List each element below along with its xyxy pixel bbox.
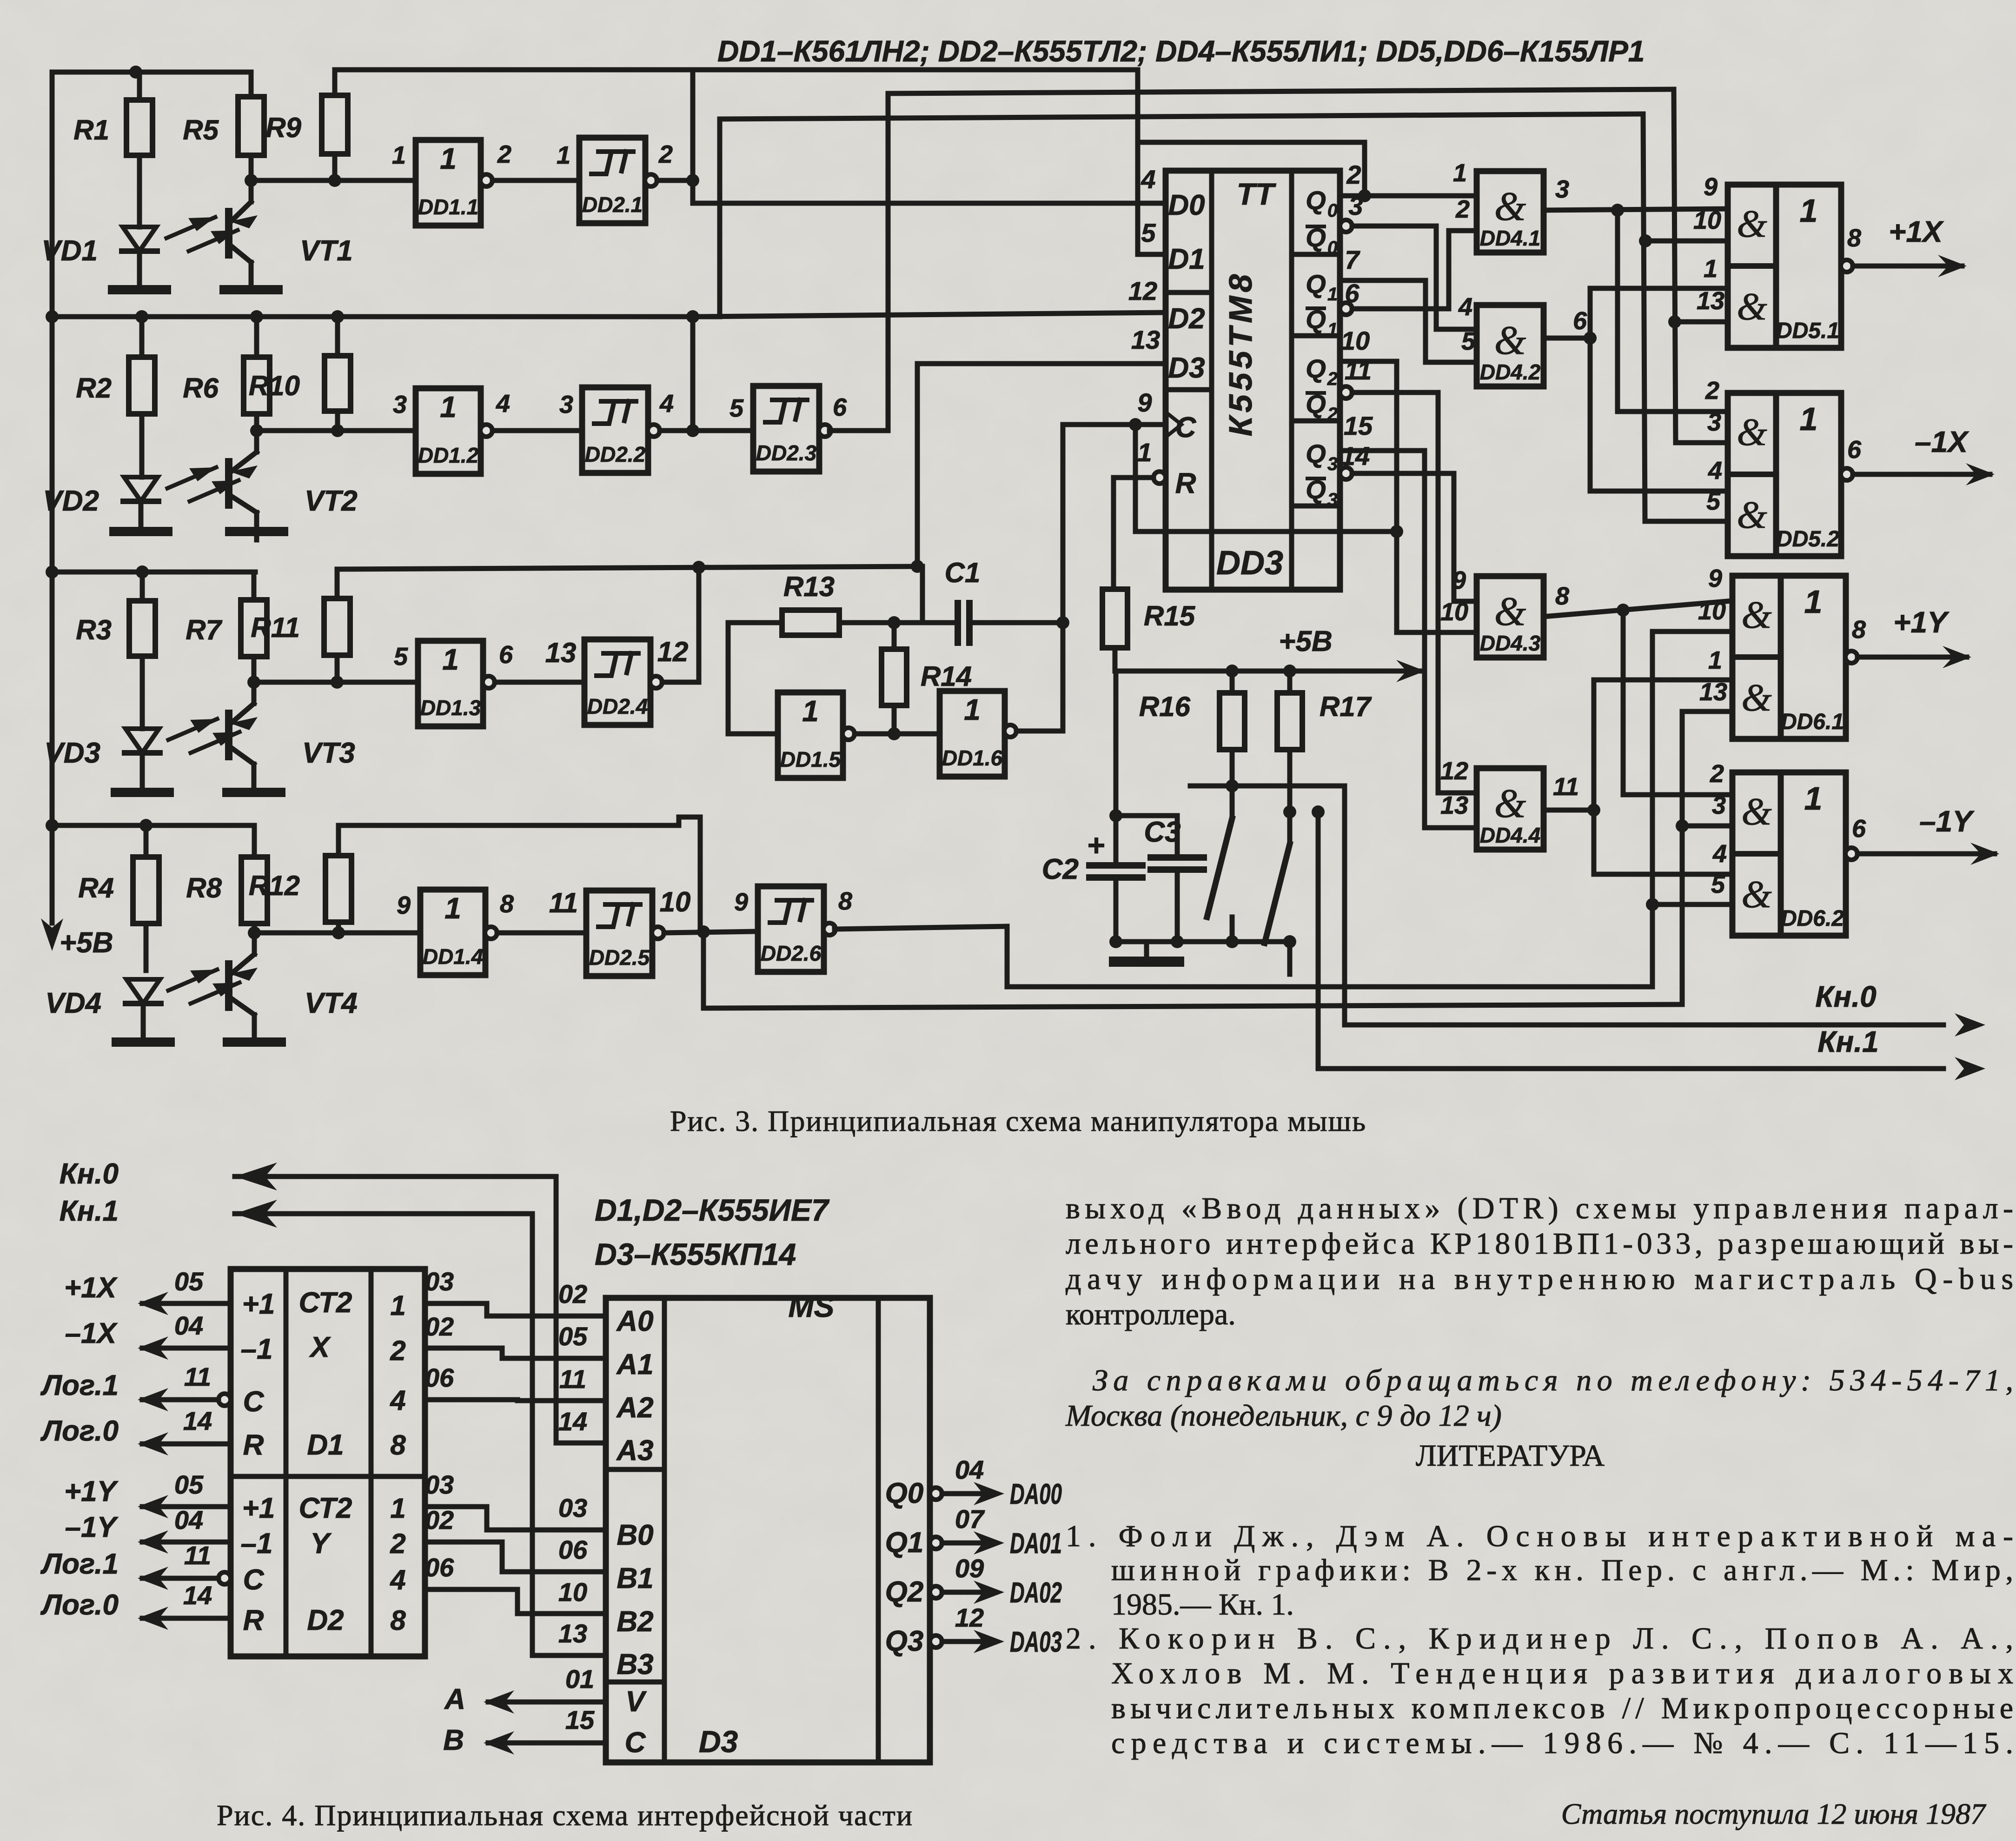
- svg-text:9: 9: [734, 888, 748, 916]
- svg-text:R5: R5: [183, 114, 219, 146]
- svg-text:02: 02: [425, 1312, 454, 1341]
- svg-text:Москва (понедельник, с 9 до 12: Москва (понедельник, с 9 до 12 ч): [1065, 1399, 1502, 1433]
- wire D2 line: [693, 312, 1166, 317]
- svg-text:11: 11: [549, 887, 578, 918]
- svg-text:Рис. 3. Принципиальная схема м: Рис. 3. Принципиальная схема манипулятор…: [670, 1104, 1366, 1137]
- svg-text:R4: R4: [78, 872, 114, 904]
- svg-text:DD6.2: DD6.2: [1781, 906, 1844, 931]
- wire cap-switch common: [1116, 935, 1296, 948]
- wire net D to DD5 pins 13 3: [1668, 89, 1728, 443]
- wire rail row4b: [338, 817, 700, 932]
- svg-text:DA01: DA01: [1010, 1528, 1062, 1560]
- svg-text:R: R: [243, 1429, 264, 1461]
- svg-text:V: V: [625, 1686, 647, 1718]
- svg-text:09: 09: [955, 1554, 984, 1583]
- wire D1 out to A2: [425, 1363, 606, 1401]
- wire Q1 to DD4.2 pin5: [1340, 280, 1477, 362]
- svg-text:R12: R12: [249, 870, 300, 901]
- wire C input B: [443, 1705, 606, 1756]
- svg-text:2: 2: [390, 1528, 405, 1559]
- svg-text:9: 9: [1137, 388, 1152, 417]
- text reference 2: [1066, 1622, 2013, 1760]
- wire DD2.1 out to node: [657, 174, 699, 187]
- svg-text:DD2.2: DD2.2: [585, 442, 646, 466]
- svg-text:&: &: [1741, 873, 1772, 916]
- svg-text:DD2.6: DD2.6: [761, 941, 822, 965]
- svg-text:6: 6: [499, 641, 513, 669]
- svg-text:дачу информации на внутреннюю: дачу информации на внутреннюю магистраль…: [1066, 1262, 2013, 1296]
- wire output Q2 DA02: [885, 1554, 1062, 1609]
- svg-text:Q: Q: [1306, 269, 1326, 299]
- svg-text:D1,D2–К555ИЕ7: D1,D2–К555ИЕ7: [595, 1193, 830, 1227]
- AND-OR gate DD5.1: [1693, 173, 1861, 348]
- svg-text:5: 5: [729, 394, 744, 422]
- inverter DD1.1: [392, 140, 511, 226]
- svg-text:2: 2: [658, 140, 673, 168]
- svg-text:B0: B0: [617, 1519, 653, 1551]
- svg-text:К555ТМ8: К555ТМ8: [1222, 271, 1259, 437]
- label parts list fig4: [595, 1193, 830, 1271]
- svg-text:&: &: [1494, 589, 1526, 634]
- opto arrows VD4-VT4: [168, 970, 239, 1004]
- svg-text:–1: –1: [241, 1333, 273, 1365]
- inverter DD1.3: [394, 641, 513, 726]
- svg-text:4: 4: [390, 1564, 405, 1595]
- LED VD1: [41, 227, 157, 290]
- svg-text:10: 10: [660, 886, 691, 917]
- svg-text:1: 1: [964, 693, 981, 726]
- LED VD2: [43, 477, 159, 532]
- wire C net to DD4 gates: [1135, 425, 1403, 538]
- counter D1 D2 box: [231, 1269, 425, 1656]
- svg-text:&: &: [1494, 184, 1526, 229]
- svg-text:4: 4: [390, 1385, 405, 1416]
- svg-text:A: A: [444, 1683, 465, 1715]
- svg-text:C: C: [243, 1386, 265, 1418]
- svg-text:DA02: DA02: [1010, 1577, 1062, 1609]
- svg-text:15: 15: [565, 1705, 595, 1735]
- wire DD2.5 out net: [703, 711, 1732, 1008]
- text article date: [1561, 1797, 1987, 1830]
- svg-text:C1: C1: [945, 557, 981, 588]
- svg-text:2: 2: [1346, 160, 1361, 189]
- svg-text:DD1.1: DD1.1: [418, 195, 478, 219]
- ground VT1: [224, 285, 278, 294]
- label +5V arrow: [1279, 625, 1425, 682]
- wire Q3bar to DD4.3 pin9: [1340, 467, 1477, 601]
- text reference 1: [1066, 1519, 2013, 1622]
- svg-text:СТ2: СТ2: [299, 1287, 352, 1319]
- svg-text:C2: C2: [1042, 853, 1079, 885]
- svg-text:DD4.3: DD4.3: [1480, 631, 1541, 655]
- ground VD4: [116, 1037, 170, 1047]
- svg-text:VT4: VT4: [305, 987, 358, 1019]
- svg-text:A3: A3: [616, 1435, 653, 1467]
- svg-text:11: 11: [559, 1364, 586, 1394]
- svg-text:лельного интерфейса КР1801ВП1-: лельного интерфейса КР1801ВП1-033, разре…: [1066, 1227, 2013, 1261]
- svg-text:6: 6: [1847, 436, 1862, 464]
- wire D1 out to A0: [425, 1267, 606, 1316]
- wire DD1.1 to DD2.1: [492, 178, 579, 183]
- svg-text:ЛИТЕРАТУРА: ЛИТЕРАТУРА: [1416, 1439, 1605, 1473]
- svg-text:12: 12: [955, 1603, 984, 1632]
- svg-text:1: 1: [1137, 438, 1152, 467]
- wire rail row1b feedback: [335, 67, 1138, 73]
- svg-text:06: 06: [425, 1363, 454, 1392]
- svg-text:&: &: [1737, 493, 1767, 537]
- wire rail row3: [46, 565, 255, 578]
- svg-text:B2: B2: [617, 1606, 653, 1638]
- svg-text:1: 1: [557, 141, 570, 169]
- wire +5V left bus: [41, 72, 113, 959]
- ground VD2: [114, 527, 168, 536]
- svg-text:VD4: VD4: [45, 987, 101, 1019]
- svg-text:+1Y: +1Y: [1893, 605, 1950, 639]
- svg-text:1. Фоли Дж., Дэм А. Основы и: 1. Фоли Дж., Дэм А. Основы интерактивной…: [1066, 1519, 2013, 1553]
- node row1: [245, 174, 416, 187]
- svg-text:1: 1: [1704, 255, 1718, 283]
- wire DD1.4 to DD2.5: [497, 930, 586, 936]
- opto arrows VD2-VT2: [167, 467, 239, 501]
- wire riser rail2 to DD2.2out: [686, 310, 699, 431]
- AND gate DD4.2: [1458, 293, 1587, 386]
- svg-text:3: 3: [393, 391, 407, 419]
- wire Q0bar to DD4.2 pin4: [1340, 220, 1477, 329]
- wire -1X out: [1853, 425, 1995, 485]
- svg-text:8: 8: [1852, 616, 1866, 644]
- svg-text:12: 12: [1440, 757, 1468, 785]
- svg-text:DD1.3: DD1.3: [420, 696, 481, 720]
- svg-text:12: 12: [657, 636, 689, 667]
- svg-text:R6: R6: [183, 372, 219, 404]
- wire +1X out: [1853, 215, 1967, 277]
- svg-text:VT2: VT2: [305, 485, 358, 517]
- svg-text:Y: Y: [310, 1528, 332, 1560]
- resistor R7: [186, 572, 267, 682]
- svg-text:11: 11: [184, 1541, 211, 1570]
- AND-OR gate DD6.2: [1710, 760, 1866, 936]
- svg-text:03: 03: [425, 1267, 454, 1296]
- svg-text:–1Y: –1Y: [1919, 804, 1975, 838]
- dynamic C input mark: [1166, 412, 1181, 437]
- svg-text:D2: D2: [1168, 303, 1205, 335]
- svg-text:2: 2: [1327, 369, 1338, 389]
- wire rail row4: [46, 819, 254, 832]
- caption fig3: [670, 1104, 1366, 1137]
- svg-text:Лог.1: Лог.1: [40, 1369, 119, 1402]
- svg-text:3: 3: [1327, 490, 1338, 510]
- LED VD3: [44, 729, 160, 792]
- ground VT4: [227, 1037, 281, 1047]
- svg-text:03: 03: [425, 1470, 454, 1499]
- text literatura heading: [1416, 1439, 1605, 1473]
- svg-text:За справками обращаться по тел: За справками обращаться по телефону: 534…: [1093, 1363, 2013, 1397]
- svg-text:4: 4: [496, 390, 510, 418]
- svg-text:DD2.3: DD2.3: [756, 441, 817, 465]
- wire DD1.6 out riser to C pin: [1016, 418, 1166, 731]
- svg-text:D1: D1: [1168, 243, 1205, 275]
- wire rail row3b: [337, 561, 922, 623]
- svg-text:2: 2: [497, 140, 511, 168]
- svg-text:03: 03: [558, 1493, 587, 1522]
- svg-text:Q: Q: [1306, 439, 1326, 468]
- wire Log1 D2 input: [40, 1541, 231, 1590]
- wire rail row2: [46, 310, 693, 323]
- resistor R1: [73, 72, 153, 227]
- AND gate DD4.1: [1453, 159, 1569, 253]
- phototransistor VT4: [229, 933, 358, 1042]
- wire DD4.3 out net: [1544, 601, 1732, 795]
- wire +1X input: [64, 1267, 231, 1315]
- svg-text:DD4.4: DD4.4: [1480, 823, 1540, 847]
- svg-text:1985.— Кн. 1.: 1985.— Кн. 1.: [1111, 1588, 1294, 1622]
- wire -1Y input: [65, 1505, 231, 1554]
- LED VD4: [45, 979, 161, 1042]
- wire Q2 to DD4.3 pin10: [1340, 361, 1477, 632]
- svg-text:Кн.0: Кн.0: [60, 1158, 119, 1190]
- wire Kn1 to B3: [60, 1195, 606, 1655]
- svg-text:B1: B1: [617, 1562, 653, 1595]
- inverter DD1.2: [393, 388, 510, 474]
- resistor R11: [251, 569, 350, 682]
- svg-text:4: 4: [1708, 457, 1722, 485]
- ground VD1: [113, 285, 166, 294]
- counter D1 cells: [241, 1287, 406, 1461]
- svg-text:05: 05: [174, 1267, 204, 1296]
- inverter DD1.5: [778, 692, 855, 778]
- svg-text:R10: R10: [249, 370, 300, 401]
- wire Q1bar to DD4.1 pin2: [1340, 231, 1477, 315]
- svg-text:4: 4: [1458, 293, 1472, 321]
- schmitt DD2.5: [549, 886, 691, 976]
- wire rail row1: [52, 66, 249, 79]
- svg-text:Кн.0: Кн.0: [1815, 980, 1876, 1013]
- svg-text:+1X: +1X: [1889, 215, 1944, 248]
- svg-text:3: 3: [559, 391, 573, 419]
- svg-text:R7: R7: [186, 614, 222, 645]
- svg-text:R1: R1: [73, 114, 109, 146]
- ground VT2: [230, 527, 284, 536]
- svg-text:R17: R17: [1320, 691, 1372, 722]
- wire DD2.2 out to DD2.3: [660, 424, 753, 437]
- svg-text:04: 04: [955, 1455, 984, 1484]
- svg-text:5: 5: [1461, 327, 1476, 355]
- svg-text:C: C: [243, 1564, 265, 1596]
- svg-text:DD1.5: DD1.5: [780, 747, 842, 771]
- wire Log1 D1 input: [40, 1362, 231, 1411]
- caption fig4: [217, 1799, 913, 1832]
- svg-text:&: &: [1741, 593, 1772, 637]
- AND gate DD4.4: [1440, 757, 1579, 850]
- svg-text:10: 10: [558, 1577, 587, 1607]
- svg-text:2: 2: [1455, 195, 1470, 223]
- wire D2 out to B1: [425, 1505, 606, 1572]
- svg-text:R: R: [1175, 467, 1196, 499]
- svg-text:0: 0: [1327, 200, 1338, 221]
- svg-text:DD2.4: DD2.4: [587, 694, 648, 718]
- svg-text:C: C: [625, 1727, 646, 1759]
- wire output Q3 DA03: [885, 1603, 1062, 1658]
- svg-text:2: 2: [1710, 760, 1724, 788]
- svg-text:A0: A0: [616, 1305, 653, 1337]
- svg-text:13: 13: [1440, 791, 1468, 819]
- svg-text:Q1: Q1: [885, 1527, 924, 1559]
- svg-text:DD1.6: DD1.6: [942, 746, 1003, 770]
- svg-text:1: 1: [802, 694, 819, 728]
- svg-text:9: 9: [397, 891, 411, 919]
- svg-text:01: 01: [565, 1664, 594, 1694]
- wire Q0 to DD4.1 pin1: [1365, 193, 1477, 199]
- svg-text:Q: Q: [1306, 354, 1326, 383]
- svg-text:3: 3: [1327, 454, 1338, 474]
- wire D3 line: [911, 364, 1166, 573]
- svg-text:Лог.0: Лог.0: [40, 1589, 119, 1621]
- wire -1Y out: [1857, 804, 1999, 865]
- svg-text:&: &: [1494, 781, 1526, 826]
- wire Q3 to DD4.4 pin13: [1340, 451, 1477, 828]
- svg-text:DD5.2: DD5.2: [1776, 527, 1839, 552]
- svg-text:1: 1: [1800, 193, 1818, 229]
- wire +5V line: [1115, 665, 1344, 678]
- svg-text:4: 4: [1712, 840, 1727, 868]
- svg-text:1: 1: [1708, 646, 1722, 674]
- inverter DD1.6: [940, 691, 1016, 777]
- svg-text:6: 6: [833, 393, 847, 421]
- svg-text:VD3: VD3: [44, 737, 100, 769]
- svg-text:контроллера.: контроллера.: [1066, 1297, 1236, 1331]
- wire DD4.2 out net: [1544, 288, 1728, 491]
- wire R13 right: [839, 566, 958, 629]
- wire V input A: [444, 1664, 606, 1715]
- svg-text:+1X: +1X: [64, 1272, 118, 1304]
- svg-text:A2: A2: [616, 1392, 653, 1424]
- svg-text:14: 14: [183, 1581, 212, 1610]
- svg-text:13: 13: [1697, 287, 1724, 315]
- svg-text:Лог.1: Лог.1: [40, 1548, 119, 1580]
- schmitt DD2.1: [557, 138, 673, 223]
- svg-text:&: &: [1741, 790, 1772, 833]
- svg-text:14: 14: [558, 1407, 587, 1436]
- wire DD4.4 out net: [1544, 680, 1732, 874]
- resistor R6: [183, 317, 270, 431]
- svg-text:СТ2: СТ2: [299, 1492, 352, 1524]
- resistor R16: [1139, 671, 1245, 786]
- svg-text:шинной графики: В 2-х кн. Пер.: шинной графики: В 2-х кн. Пер. с англ.— …: [1111, 1553, 2013, 1587]
- svg-text:13: 13: [545, 637, 577, 668]
- svg-text:15: 15: [1344, 411, 1373, 440]
- resistor R17: [1277, 671, 1372, 812]
- svg-text:04: 04: [174, 1505, 203, 1535]
- svg-text:1: 1: [1327, 319, 1338, 340]
- AND gate DD4.3: [1440, 566, 1569, 658]
- svg-text:B: B: [443, 1724, 464, 1756]
- svg-text:Q: Q: [1306, 186, 1326, 215]
- svg-text:Q0: Q0: [885, 1477, 924, 1509]
- wire DD4.1 out net: [1544, 204, 1728, 412]
- ground symbol: [1114, 942, 1179, 962]
- svg-text:Рис. 4. Принципиальная схема и: Рис. 4. Принципиальная схема интерфейсно…: [217, 1799, 913, 1832]
- svg-text:DD5.1: DD5.1: [1776, 319, 1839, 343]
- svg-text:D0: D0: [1168, 189, 1205, 221]
- svg-text:R11: R11: [251, 612, 300, 643]
- wire DD1.5 out: [855, 727, 940, 740]
- svg-text:&: &: [1737, 285, 1767, 328]
- svg-text:5: 5: [1141, 218, 1156, 247]
- svg-text:11: 11: [184, 1362, 211, 1391]
- svg-text:DA00: DA00: [1010, 1478, 1062, 1510]
- svg-text:9: 9: [1708, 565, 1722, 592]
- opto arrows VD1-VT1: [166, 217, 238, 251]
- svg-text:&: &: [1737, 411, 1767, 454]
- resistor R8: [186, 825, 267, 933]
- svg-text:8: 8: [1847, 224, 1861, 252]
- svg-text:9: 9: [1704, 173, 1718, 201]
- svg-text:+5В: +5В: [1279, 625, 1332, 658]
- capacitor C2: [1042, 671, 1142, 948]
- wire -1X input: [65, 1311, 231, 1360]
- svg-text:VD1: VD1: [41, 235, 98, 267]
- svg-text:вычислительных комплексо: вычислительных комплексов // Микропроцес…: [1111, 1691, 2013, 1725]
- wire DD2.6 out net: [835, 631, 1732, 987]
- svg-text:X: X: [309, 1331, 331, 1363]
- svg-text:VD2: VD2: [43, 485, 99, 517]
- svg-text:D3–К555КП14: D3–К555КП14: [595, 1237, 796, 1271]
- AND-OR gate DD6.1: [1698, 565, 1866, 739]
- schmitt DD2.3: [729, 386, 847, 472]
- svg-text:1: 1: [442, 643, 459, 676]
- svg-text:D3: D3: [1168, 352, 1205, 384]
- node row4: [248, 926, 420, 939]
- svg-text:04: 04: [174, 1311, 203, 1340]
- svg-text:+1: +1: [242, 1288, 275, 1320]
- wire +1Y out: [1857, 605, 1971, 668]
- svg-text:–1: –1: [241, 1528, 273, 1560]
- svg-text:1: 1: [1804, 584, 1823, 620]
- wire D2 out to B0: [425, 1470, 606, 1530]
- svg-text:Кн.1: Кн.1: [60, 1195, 119, 1227]
- svg-text:2: 2: [1705, 377, 1719, 405]
- svg-text:DD2.1: DD2.1: [582, 193, 643, 217]
- svg-text:2: 2: [390, 1335, 405, 1366]
- label parts list: [717, 34, 1645, 68]
- wire Kn1: [1312, 805, 1985, 1080]
- svg-text:R: R: [243, 1604, 264, 1636]
- resistor R3: [76, 572, 155, 729]
- svg-text:14: 14: [183, 1406, 212, 1436]
- opto arrows VD3-VT3: [168, 719, 239, 753]
- resistor R4: [78, 825, 159, 970]
- wire output Q0 DA00: [885, 1455, 1062, 1510]
- svg-text:DD6.1: DD6.1: [1781, 710, 1844, 734]
- svg-text:1: 1: [1804, 780, 1823, 817]
- text paragraph phone: [1065, 1363, 2013, 1433]
- svg-text:TT: TT: [1237, 177, 1276, 211]
- svg-text:1: 1: [440, 390, 457, 424]
- phototransistor VT2: [229, 431, 358, 540]
- wire Log0 D1 input: [40, 1406, 231, 1456]
- text paragraph DTR: [1066, 1191, 2013, 1331]
- resistor R13: [782, 571, 839, 635]
- svg-text:D2: D2: [307, 1604, 344, 1636]
- svg-text:&: &: [1494, 318, 1526, 363]
- wire D1 out to A1: [425, 1312, 606, 1358]
- svg-text:Статья поступила 12 июня 1987: Статья поступила 12 июня 1987: [1561, 1797, 1987, 1830]
- svg-text:5: 5: [394, 643, 408, 671]
- svg-text:8: 8: [500, 890, 514, 918]
- wire Kn0 to A3: [60, 1158, 606, 1443]
- svg-text:1: 1: [444, 891, 461, 925]
- svg-text:DD1–К561ЛН2; DD2–К555ТЛ2; DD4–: DD1–К561ЛН2; DD2–К555ТЛ2; DD4–К555ЛИ1; D…: [717, 34, 1645, 68]
